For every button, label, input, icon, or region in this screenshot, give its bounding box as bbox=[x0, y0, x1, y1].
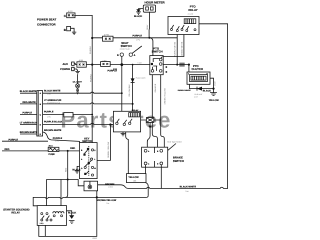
label aux power bbox=[60, 63, 70, 71]
svg-text:1 Ohm: 1 Ohm bbox=[108, 186, 114, 189]
wire module mid down to callout bbox=[126, 132, 129, 174]
svg-text:PUR-WHT: PUR-WHT bbox=[195, 93, 203, 96]
svg-text:ORANGE: ORANGE bbox=[154, 83, 157, 92]
svg-text:BLACK: BLACK bbox=[134, 15, 142, 18]
connector B box bbox=[67, 26, 71, 30]
wire relay second feed bbox=[60, 180, 62, 206]
lamp oil light bbox=[76, 74, 80, 88]
node W3 purple join bbox=[91, 114, 93, 116]
diode D1 bbox=[131, 78, 135, 82]
diode D3 bbox=[148, 126, 151, 129]
svg-text:BROWN-YELLOW: BROWN-YELLOW bbox=[96, 199, 117, 202]
node red tap bbox=[67, 179, 69, 181]
svg-text:RED: RED bbox=[64, 167, 67, 172]
svg-text:7 BL: 7 BL bbox=[106, 202, 110, 205]
pto clutch box bbox=[187, 72, 210, 84]
connector C box bbox=[67, 10, 75, 18]
module box M1 bbox=[113, 111, 140, 132]
wire hour meter down to bus bbox=[148, 12, 150, 38]
node clutch ground bbox=[212, 88, 214, 90]
label pto clutch bbox=[192, 64, 204, 71]
svg-text:LT GREEN-BLK: LT GREEN-BLK bbox=[20, 121, 37, 124]
node W1 to seat drop bbox=[121, 92, 123, 94]
svg-text:HOUR METER: HOUR METER bbox=[145, 0, 166, 4]
label pto relay bbox=[188, 4, 197, 12]
svg-text:BROWN: BROWN bbox=[105, 183, 114, 186]
label seat switch bbox=[121, 41, 132, 48]
svg-text:STARTER INTLK: STARTER INTLK bbox=[47, 101, 61, 104]
aux plug lower bbox=[72, 67, 76, 70]
node aux purple junction bbox=[91, 64, 93, 66]
svg-text:(4 unit): (4 unit) bbox=[188, 12, 194, 15]
svg-text:RED-WHITE: RED-WHITE bbox=[23, 101, 37, 104]
wire red down from fuse bbox=[65, 151, 67, 198]
connector pair on clutch feed bbox=[180, 63, 184, 67]
wire clutch top left stub bbox=[188, 65, 190, 72]
brake switch box bbox=[142, 147, 168, 167]
svg-text:SWITCH: SWITCH bbox=[152, 49, 163, 53]
wire hour meter to ground bbox=[139, 9, 144, 12]
wire purple bus bbox=[92, 37, 177, 39]
ground starter bbox=[67, 211, 75, 224]
wire callout out to bus corner bbox=[146, 183, 149, 196]
svg-text:PURPLE-WHITE: PURPLE-WHITE bbox=[178, 89, 192, 92]
svg-text:B: B bbox=[117, 54, 119, 57]
wire brake bl down to callout bbox=[145, 165, 147, 174]
seat switch terminal A bbox=[129, 53, 132, 56]
wire module to X-box bbox=[141, 119, 161, 121]
svg-text:BROWN-WHITE: BROWN-WHITE bbox=[44, 129, 62, 132]
label power seat connector bbox=[37, 18, 56, 27]
ground for connector B bbox=[71, 28, 77, 34]
wire W5 right curve to key switch bbox=[43, 132, 80, 143]
node W4 dot bbox=[109, 123, 111, 125]
svg-text:PURPLE-WHITE: PURPLE-WHITE bbox=[174, 41, 177, 57]
svg-text:(Under Seat): (Under Seat) bbox=[120, 47, 130, 50]
svg-text:1 PU: 1 PU bbox=[136, 39, 141, 42]
label starter solenoid relay bbox=[3, 208, 29, 214]
svg-text:PURPLE: PURPLE bbox=[133, 35, 143, 38]
svg-text:PURPLE: PURPLE bbox=[9, 138, 19, 141]
ground hour meter bbox=[136, 10, 141, 15]
connector strip J1 bbox=[37, 91, 43, 136]
node seat junction bbox=[120, 63, 123, 66]
connector on bus box bbox=[103, 33, 114, 41]
wire W1 black-white bbox=[20, 92, 122, 93]
wire aux power row bbox=[75, 64, 122, 66]
svg-text:BLACK: BLACK bbox=[68, 212, 76, 215]
connector pair oil light bbox=[76, 88, 79, 94]
connector X-box right of module bbox=[146, 118, 153, 123]
node V4 red-white junction bbox=[132, 103, 134, 105]
wire black-white long bbox=[98, 185, 228, 189]
wire purple vertical V1 bbox=[91, 16, 93, 143]
svg-text:PURPLE: PURPLE bbox=[89, 45, 92, 54]
node clutch top bbox=[188, 64, 190, 66]
ground aux shared bbox=[75, 69, 80, 74]
svg-text:POWER SEAT: POWER SEAT bbox=[37, 18, 56, 22]
wire C to purple node bbox=[74, 14, 92, 17]
connector inline W3 bbox=[64, 113, 73, 117]
ground module bbox=[121, 132, 126, 136]
wire bus branch to pto switch bbox=[150, 38, 153, 56]
wire X-box down to brake with diode bbox=[147, 122, 150, 147]
sender box brown bbox=[84, 181, 98, 191]
wire sender down bbox=[39, 191, 97, 237]
seat switch lever bbox=[132, 46, 142, 53]
svg-text:1 2 3: 1 2 3 bbox=[40, 222, 44, 225]
wire sender to starter relay coil bbox=[47, 180, 84, 206]
aux connector box 1 bbox=[77, 59, 86, 67]
label key switch bbox=[82, 138, 92, 144]
wire seat B down bbox=[121, 56, 123, 111]
aux connector box 2 bbox=[101, 59, 111, 66]
svg-text:AUX: AUX bbox=[63, 63, 69, 66]
svg-text:PTO: PTO bbox=[113, 68, 118, 71]
wire module W4 drop to key bbox=[97, 124, 110, 160]
wire clutch bottom diode row bbox=[190, 84, 214, 88]
pto switch box bbox=[150, 56, 163, 75]
diode D2 bbox=[197, 87, 202, 91]
svg-text:A: A bbox=[134, 54, 136, 57]
svg-text:GREEN-YELLOW: GREEN-YELLOW bbox=[107, 142, 110, 158]
wire brake br down to black-white bbox=[160, 165, 162, 189]
svg-text:YELLOW: YELLOW bbox=[209, 99, 220, 102]
svg-text:BLACK-WHITE: BLACK-WHITE bbox=[20, 90, 37, 93]
wire W7 red fuse row bbox=[2, 150, 79, 152]
key switch box bbox=[80, 143, 98, 179]
wire pto relay right bbox=[199, 24, 228, 189]
svg-text:PURPLE: PURPLE bbox=[44, 110, 54, 113]
svg-text:GREEN-YELLOW: GREEN-YELLOW bbox=[163, 88, 166, 104]
svg-text:BLACK-WHITE: BLACK-WHITE bbox=[180, 186, 197, 189]
svg-text:SWITCH: SWITCH bbox=[173, 159, 184, 163]
seat switch terminal B bbox=[120, 53, 123, 56]
ground clutch bbox=[210, 89, 217, 96]
starter relay box bbox=[37, 206, 66, 226]
leader seal type bbox=[168, 144, 176, 151]
wire V4 down with diode bbox=[132, 65, 134, 113]
hour meter box bbox=[143, 5, 155, 12]
svg-text:PURPLE: PURPLE bbox=[89, 73, 92, 82]
wire W4 into module bbox=[110, 123, 113, 125]
svg-text:Seal Type Switch: Seal Type Switch bbox=[167, 140, 181, 143]
node bus2 sender bbox=[96, 196, 98, 198]
svg-text:GREEN-WHITE: GREEN-WHITE bbox=[181, 41, 184, 56]
svg-text:YELLOW: YELLOW bbox=[128, 176, 139, 179]
wire relay stub 2 bbox=[44, 225, 46, 236]
node purple junction top bbox=[91, 37, 93, 39]
svg-text:Reset Clutch: Reset Clutch bbox=[136, 77, 146, 80]
fuse F1 bbox=[48, 144, 59, 155]
aux plug upper bbox=[72, 62, 76, 65]
node bus hour meter junction bbox=[148, 37, 150, 39]
node pw junction bbox=[176, 64, 178, 66]
node fuse out bbox=[67, 150, 69, 152]
svg-text:BROWN-WHITE: BROWN-WHITE bbox=[20, 131, 38, 134]
wire W2 red-white bbox=[20, 103, 133, 104]
svg-text:CLUTCH: CLUTCH bbox=[192, 67, 204, 71]
wire purple-white relay down bbox=[176, 35, 178, 65]
svg-text:RED: RED bbox=[70, 147, 75, 150]
label brake switch bbox=[173, 155, 184, 163]
wire green-white relay down bbox=[161, 35, 184, 59]
svg-text:PURPLE: PURPLE bbox=[23, 112, 33, 115]
svg-text:RED: RED bbox=[5, 148, 10, 151]
svg-text:GRAY: GRAY bbox=[214, 80, 217, 86]
ground key switch bbox=[75, 166, 80, 173]
svg-text:FUSE: FUSE bbox=[49, 153, 56, 156]
svg-text:POWER: POWER bbox=[60, 68, 70, 71]
svg-text:RELAY: RELAY bbox=[188, 8, 197, 12]
wire W6 purple to fuse row bbox=[2, 140, 48, 142]
svg-text:166: 166 bbox=[133, 179, 136, 182]
svg-text:BLACK: BLACK bbox=[203, 90, 211, 93]
svg-text:YELLOW-BLK: YELLOW-BLK bbox=[128, 84, 131, 97]
wire pto switch right to clutch bbox=[163, 64, 189, 66]
label pto switch bbox=[152, 46, 163, 53]
pto switch side terminals bbox=[166, 66, 168, 68]
svg-text:RELAY: RELAY bbox=[11, 212, 20, 215]
svg-text:GRAY: GRAY bbox=[146, 24, 149, 30]
wire W4 lt green bbox=[20, 123, 113, 124]
wire W5 brown-white bbox=[20, 133, 37, 135]
wire seat junction right bbox=[122, 64, 150, 66]
wire pto sw bottom right down to brake bbox=[161, 75, 165, 148]
callout yellow 166 bbox=[127, 174, 147, 183]
wire clutch right side down bbox=[210, 78, 214, 88]
svg-text:CONNECTOR: CONNECTOR bbox=[37, 22, 56, 26]
wire W3 purple bbox=[20, 114, 92, 116]
wire pto sw bottom left down bbox=[152, 75, 157, 148]
wire bus2 bottom bbox=[33, 196, 148, 206]
svg-text:BLACK-WHITE: BLACK-WHITE bbox=[44, 89, 61, 92]
svg-text:PURPLE-BLACK: PURPLE-BLACK bbox=[44, 121, 63, 124]
pto relay box bbox=[168, 17, 199, 35]
